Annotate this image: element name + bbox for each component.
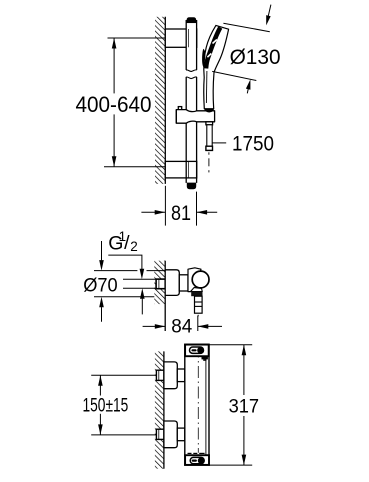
svg-text:400-640: 400-640 (76, 92, 152, 117)
svg-text:81: 81 (171, 202, 191, 225)
svg-text:Ø70: Ø70 (83, 275, 118, 296)
svg-text:2: 2 (130, 239, 138, 254)
svg-text:84: 84 (171, 317, 192, 338)
svg-text:Ø130: Ø130 (230, 45, 281, 69)
svg-text:/: / (124, 232, 130, 254)
svg-text:150±15: 150±15 (83, 396, 129, 417)
svg-text:1750: 1750 (232, 132, 274, 156)
svg-text:317: 317 (229, 396, 260, 417)
